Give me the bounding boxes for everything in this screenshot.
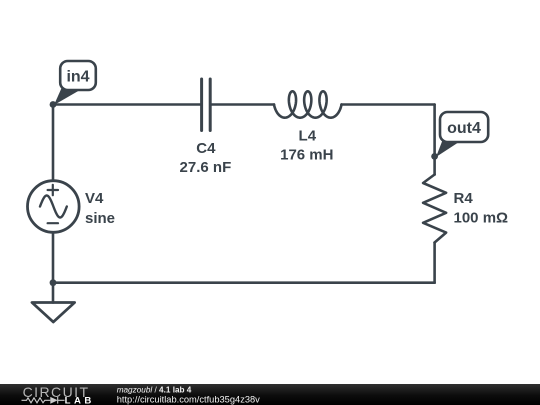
svg-text:V4: V4 <box>85 190 104 207</box>
svg-text:R4: R4 <box>454 190 474 207</box>
node flag out4 box <box>440 112 488 142</box>
svg-text:C4: C4 <box>196 140 216 157</box>
wire resistor bottom to corner <box>433 243 436 283</box>
svg-text:magzoubl / 4.1 lab 4: magzoubl / 4.1 lab 4 <box>117 385 192 394</box>
capacitor C4 plates <box>202 79 211 131</box>
inductor L4 coil <box>274 91 342 117</box>
svg-text:out4: out4 <box>447 120 481 137</box>
sine wave inside source <box>40 196 67 218</box>
wire left vertical top (node to source) <box>52 105 55 181</box>
footer bar <box>0 384 540 405</box>
svg-text:27.6 nF: 27.6 nF <box>180 159 232 176</box>
minus sign <box>48 222 58 224</box>
voltage source V4 circle <box>28 181 80 233</box>
node flag in4 tail <box>54 87 80 105</box>
svg-text:http://circuitlab.com/ctfub35g: http://circuitlab.com/ctfub35g4z38v <box>117 395 260 405</box>
wire top-left horizontal <box>53 103 200 106</box>
svg-text:176 mH: 176 mH <box>280 146 333 163</box>
wire inductor to top-right corner <box>342 103 435 106</box>
node out4 junction dot <box>431 153 438 160</box>
svg-text:in4: in4 <box>66 69 89 86</box>
node in4 junction dot <box>50 101 57 108</box>
svg-text:100 mΩ: 100 mΩ <box>454 209 509 226</box>
wire between capacitor and inductor <box>212 103 274 106</box>
logo diode triangle <box>50 397 57 404</box>
node flag in4 box <box>60 61 96 90</box>
resistor R4 zigzag <box>423 175 446 243</box>
ground symbol <box>32 303 75 323</box>
wire bottom horizontal <box>53 281 435 284</box>
plus sign <box>48 185 58 195</box>
svg-text:LAB: LAB <box>65 396 95 405</box>
wire right vertical to resistor <box>433 105 436 175</box>
node flag out4 tail <box>436 139 459 157</box>
logo wire-resistor-diode line <box>22 397 65 404</box>
svg-text:L4: L4 <box>299 127 317 144</box>
ground node junction dot <box>50 279 57 286</box>
svg-text:sine: sine <box>85 210 115 227</box>
wire source bottom to ground node <box>52 232 55 302</box>
